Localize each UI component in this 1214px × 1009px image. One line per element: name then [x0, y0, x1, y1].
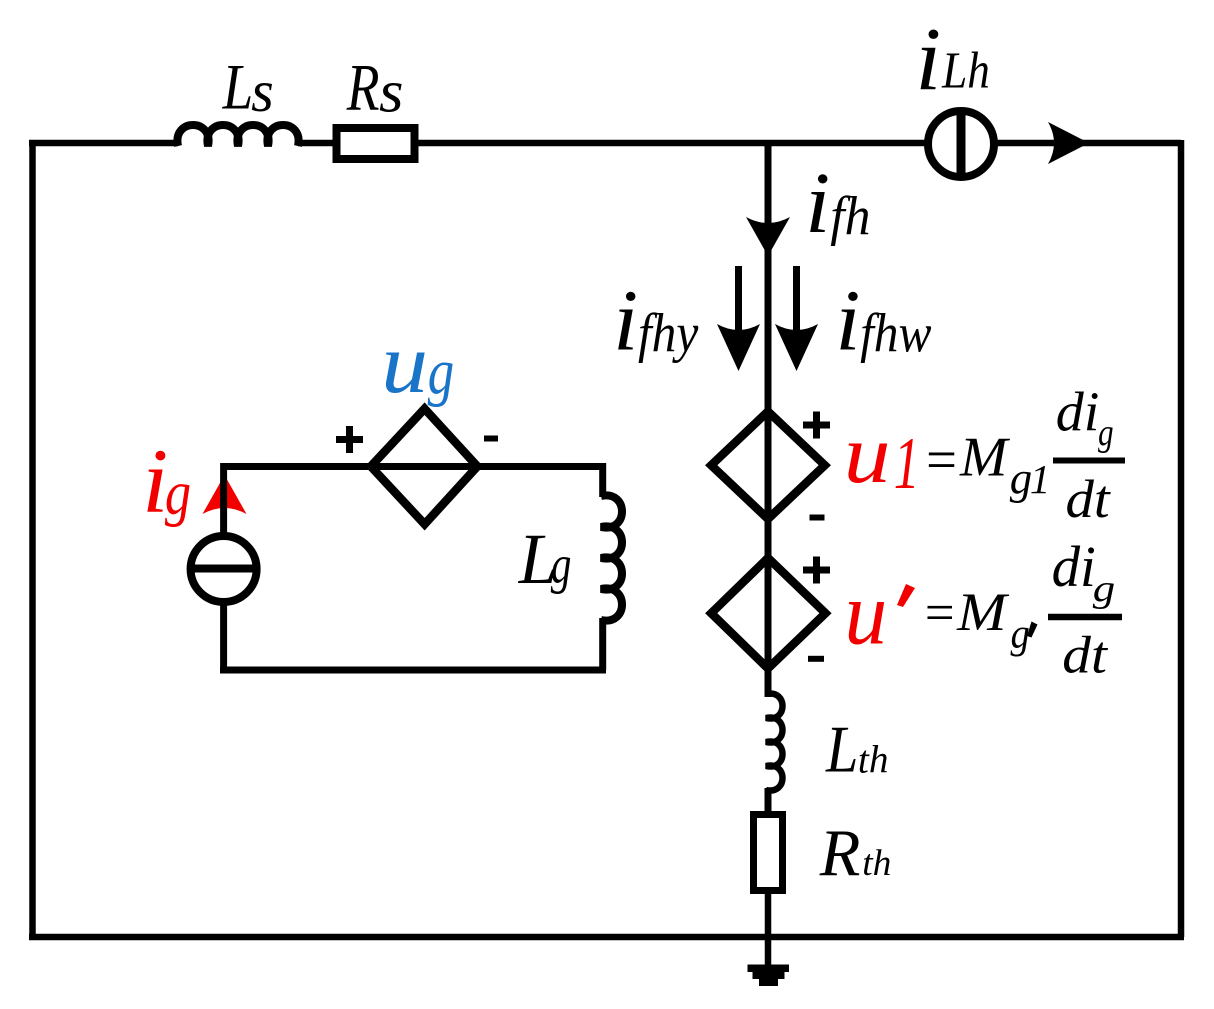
svg-text:th: th — [858, 739, 889, 782]
wire Lth-Rth — [765, 788, 772, 814]
svg-text:fhy: fhy — [638, 303, 699, 364]
dependent source u-prime — [711, 558, 825, 669]
svg-text:i: i — [613, 273, 638, 369]
wire Rs to top-right corner — [418, 140, 1181, 147]
arrow iLh — [1048, 122, 1089, 164]
svg-text:R: R — [819, 816, 861, 890]
arrow ifh — [746, 217, 790, 256]
svg-text:dt: dt — [1062, 625, 1108, 684]
svg-text:s: s — [251, 59, 274, 124]
svg-text:=: = — [926, 429, 957, 493]
dependent source u1 — [711, 411, 825, 519]
wire inner right upper — [599, 463, 606, 497]
svg-text:dt: dt — [1066, 470, 1112, 530]
svg-text:g: g — [1093, 567, 1115, 609]
svg-text:M: M — [959, 427, 1010, 489]
svg-text:M: M — [956, 582, 1009, 642]
plus sign u1 — [803, 412, 830, 439]
svg-text:g: g — [551, 535, 572, 595]
svg-text:th: th — [862, 843, 891, 884]
wire inner left — [220, 463, 227, 670]
svg-text:L: L — [825, 713, 858, 786]
inductor Lg — [601, 495, 622, 620]
svg-text:=: = — [925, 584, 955, 642]
wire inner top — [224, 463, 603, 470]
svg-text:i: i — [835, 273, 860, 369]
wire outer right — [1178, 140, 1185, 937]
svg-text:u: u — [381, 316, 428, 411]
minus sign u-prime — [808, 656, 824, 662]
plus sign u-prime — [803, 557, 830, 584]
svg-text:g: g — [1098, 412, 1114, 453]
resistor Rth — [754, 815, 783, 891]
ground — [748, 965, 790, 973]
wire outer left — [29, 140, 36, 937]
arrow ifhw — [793, 266, 800, 330]
svg-text:g: g — [1011, 610, 1030, 657]
minus sign ug — [484, 436, 498, 442]
minus sign u1 — [810, 515, 825, 521]
svg-text:s: s — [379, 59, 404, 125]
dependent source ug — [371, 409, 478, 525]
resistor Rs — [337, 128, 415, 159]
wire Rth to ground — [765, 890, 772, 967]
svg-text:g: g — [1010, 453, 1032, 503]
svg-text:di: di — [1056, 382, 1100, 444]
svg-text:L: L — [222, 51, 254, 123]
wire outer bottom — [29, 934, 1184, 941]
svg-text:i: i — [915, 9, 941, 108]
svg-text:di: di — [1052, 536, 1096, 600]
svg-text:g: g — [165, 457, 191, 528]
svg-text:1: 1 — [894, 422, 920, 504]
svg-text:g: g — [428, 335, 455, 407]
current source ig — [191, 536, 257, 602]
svg-text:fh: fh — [830, 185, 870, 247]
inductor Lth — [766, 693, 783, 790]
svg-text:R: R — [346, 51, 380, 125]
svg-text:i: i — [805, 156, 830, 252]
svg-text:fhw: fhw — [860, 303, 932, 364]
arrow ig (red) — [203, 475, 247, 514]
svg-text:u: u — [845, 565, 888, 665]
wire Ls-Rs — [298, 140, 336, 147]
svg-text:u: u — [844, 408, 891, 501]
wire inner bottom — [220, 667, 606, 674]
inductor Ls — [177, 125, 298, 146]
wire top-left segment — [29, 140, 178, 147]
wire middle branch — [765, 143, 772, 697]
wire inner right lower — [599, 618, 606, 670]
svg-text:1: 1 — [1030, 456, 1050, 502]
plus sign ug — [336, 426, 363, 453]
svg-text:Lh: Lh — [941, 42, 990, 100]
current source iLh — [928, 111, 994, 177]
arrow ifhy — [735, 266, 742, 330]
